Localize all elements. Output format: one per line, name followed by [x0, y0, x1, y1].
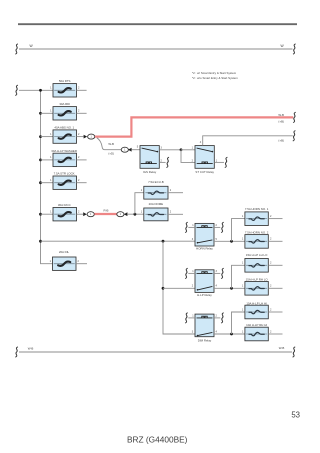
svg-text:2: 2: [270, 262, 272, 265]
fuse F3 40A ABS NO.1: [41, 126, 84, 144]
node feeder split: [162, 240, 165, 243]
fuse 7.5A ECU-B: [141, 180, 183, 199]
svg-text:10A H-LP RH HI: 10A H-LP RH HI: [246, 323, 267, 327]
svg-text:2: 2: [78, 87, 80, 90]
svg-text:1: 1: [50, 156, 52, 159]
wire dim out to fuses: [214, 333, 245, 335]
svg-text:2: 2: [78, 179, 80, 182]
fuse 7.5A HORN NO.2: [242, 230, 283, 248]
relay U4 H-LP Relay: [192, 270, 218, 297]
wire node to ST CUT pin1: [181, 149, 195, 151]
relay U1 IGS Relay: [137, 146, 163, 174]
wire hlp coil left: [188, 272, 195, 274]
svg-text:2: 2: [216, 224, 218, 227]
fuse F7 20A DIL: [50, 250, 87, 271]
svg-text:W-B: W-B: [278, 113, 284, 117]
wire hlp out to fuses: [214, 287, 245, 289]
svg-text:4: 4: [200, 141, 202, 144]
svg-text:1: 1: [50, 179, 52, 182]
svg-text:ST CUT Relay: ST CUT Relay: [195, 170, 214, 174]
connector oval DOME feed: [117, 212, 124, 217]
svg-text:(+B): (+B): [278, 120, 284, 124]
wire up to ECU-B fuse: [135, 193, 144, 215]
wire battery red highlight top: [95, 117, 293, 136]
wire from left cut to bus: [15, 85, 18, 95]
fuse F4 30A H-LP WASHER: [41, 149, 87, 167]
svg-text:30A H-LP WASHER: 30A H-LP WASHER: [51, 149, 77, 153]
svg-text:15A H-LP RH LO: 15A H-LP RH LO: [246, 278, 269, 282]
svg-text:7.5A ECU-B: 7.5A ECU-B: [148, 180, 164, 184]
svg-text:W: W: [281, 44, 285, 48]
connector oval IGS feed: [121, 147, 128, 152]
fuse 10A H-LP RH HI: [242, 323, 283, 341]
wire feeder to HORN relay: [41, 240, 196, 242]
svg-text:20A DIL: 20A DIL: [59, 250, 70, 254]
svg-text:1: 1: [50, 110, 52, 113]
svg-text:1: 1: [192, 315, 194, 318]
wire horn out to fuses: [214, 240, 245, 242]
svg-text:3: 3: [192, 330, 194, 333]
svg-text:2: 2: [78, 156, 80, 159]
fuse 20A DOME: [141, 202, 183, 221]
connector oval F3: [88, 134, 95, 139]
svg-text:4: 4: [216, 330, 218, 333]
svg-text:2: 2: [78, 260, 80, 263]
wire ST CUT pin4 to cut: [203, 136, 293, 146]
svg-text:HORN Relay: HORN Relay: [196, 247, 213, 251]
svg-text:2: 2: [270, 215, 272, 218]
wire W-B ground bottom: [19, 351, 292, 353]
connector squiggle red end: [293, 112, 296, 122]
svg-text:2: 2: [216, 315, 218, 318]
wire node down to ST CUT pin2: [181, 150, 195, 163]
svg-text:1: 1: [242, 330, 244, 333]
svg-text:2: 2: [78, 133, 80, 136]
svg-text:2: 2: [270, 285, 272, 288]
relay U2 ST CUT Relay: [192, 141, 218, 174]
svg-text:(+B): (+B): [278, 138, 284, 142]
svg-text:W-B: W-B: [28, 346, 34, 350]
wire R-B red highlight: [94, 213, 117, 215]
fuse 10A H-LP LH HI: [242, 302, 283, 319]
svg-text:R-B: R-B: [104, 208, 109, 212]
connector squiggle top-left: [15, 44, 18, 54]
svg-text:7.5A HORN NO. 1: 7.5A HORN NO. 1: [245, 207, 269, 211]
svg-text:30A D/CC: 30A D/CC: [58, 203, 71, 207]
wire to H-LP relay: [163, 287, 195, 289]
svg-text:1: 1: [50, 87, 52, 90]
svg-text:1: 1: [242, 262, 244, 265]
svg-text:2: 2: [270, 308, 272, 311]
svg-text:2: 2: [270, 330, 272, 333]
svg-text:BRZ (G4400BE): BRZ (G4400BE): [127, 434, 188, 444]
wire sub bus down: [163, 241, 195, 334]
svg-text:1: 1: [192, 147, 194, 150]
svg-text:1: 1: [242, 215, 244, 218]
top frame bar: [18, 23, 297, 25]
svg-text:1: 1: [141, 189, 143, 192]
fuse F2 30A RDI: [41, 102, 87, 120]
svg-text:1: 1: [50, 260, 52, 263]
svg-text:50A DTS: 50A DTS: [59, 79, 71, 83]
svg-text:4: 4: [216, 285, 218, 288]
svg-text:2: 2: [192, 285, 194, 288]
svg-text:1: 1: [242, 238, 244, 241]
svg-text:20A DOME: 20A DOME: [149, 202, 164, 206]
svg-text:15A H-LP LH LO: 15A H-LP LH LO: [246, 253, 268, 257]
wire to dome junction: [127, 213, 143, 215]
svg-text:7.5A HORN NO. 2: 7.5A HORN NO. 2: [245, 230, 269, 234]
svg-text:1: 1: [50, 133, 52, 136]
wire ST CUT out pin1: [214, 161, 224, 163]
svg-text:DIM Relay: DIM Relay: [198, 338, 212, 342]
svg-text:*2 : w/ Smart Entry & Start Sy: *2 : w/ Smart Entry & Start System: [192, 71, 237, 75]
svg-text:3: 3: [192, 238, 194, 241]
svg-text:1: 1: [192, 270, 194, 273]
connector oval F6: [87, 212, 94, 217]
connector arrow F3: [84, 135, 88, 139]
svg-text:1: 1: [242, 308, 244, 311]
svg-text:2: 2: [78, 110, 80, 113]
node junction dots on bus: [39, 89, 42, 243]
node ECU-B/DOME junction: [134, 213, 137, 216]
svg-text:3: 3: [216, 270, 218, 273]
relay U3 HORN Relay: [192, 223, 218, 250]
svg-text:7.5A STR LOCK: 7.5A STR LOCK: [54, 172, 75, 176]
svg-text:30A RDI: 30A RDI: [59, 102, 70, 106]
wire dim coil left: [188, 317, 195, 319]
svg-text:5: 5: [137, 146, 139, 149]
svg-text:1: 1: [192, 224, 194, 227]
connector arrow IGS feed: [128, 148, 132, 152]
node IGS/STCUT: [180, 148, 183, 151]
wire IGS pin3 to node: [159, 149, 181, 151]
svg-text:2: 2: [170, 211, 172, 214]
fuse F5 7.5A STR LOCK: [41, 172, 87, 190]
wire IGS pin2 out: [159, 161, 165, 163]
wire dim coil right: [214, 317, 220, 319]
wire horn coil left: [188, 226, 195, 228]
connector arrow F6: [83, 212, 87, 216]
svg-text:1: 1: [50, 211, 52, 214]
wire main bus: [41, 90, 54, 263]
svg-text:5: 5: [216, 238, 218, 241]
fuse 7.5A HORN NO.1: [242, 207, 283, 225]
svg-text:2: 2: [78, 211, 80, 214]
svg-text:2: 2: [270, 238, 272, 241]
connector squiggle top-right: [293, 44, 296, 54]
svg-text:*2 : w/o Smart Entry & Start S: *2 : w/o Smart Entry & Start System: [192, 76, 238, 80]
svg-text:40A ABS NO. 1: 40A ABS NO. 1: [54, 126, 74, 130]
svg-text:W-B: W-B: [108, 142, 114, 146]
wire W-B to IGS relay: [97, 138, 121, 150]
node H-LP feed: [162, 287, 165, 290]
fuse F6 30A D/CC: [41, 203, 84, 221]
relay U5 DIM Relay: [192, 314, 218, 342]
wire hlp coil right: [214, 272, 220, 274]
wire W top: [19, 48, 293, 50]
svg-text:2: 2: [170, 189, 172, 192]
wire horn coil right: [214, 226, 220, 228]
svg-text:1: 1: [242, 285, 244, 288]
svg-text:(+D): (+D): [108, 151, 114, 155]
svg-text:W-B: W-B: [279, 346, 285, 350]
svg-text:W: W: [30, 44, 34, 48]
svg-text:1: 1: [141, 211, 143, 214]
connector arrow DOME feed: [124, 212, 128, 216]
fuse 15A H-LP LH LO: [242, 253, 283, 272]
fuse 15A H-LP RH LO: [242, 278, 283, 296]
svg-text:53: 53: [291, 411, 300, 420]
svg-text:IGS Relay: IGS Relay: [143, 170, 157, 174]
svg-text:H-LP Relay: H-LP Relay: [197, 293, 212, 297]
svg-text:3: 3: [161, 147, 163, 150]
fuse F1 50A DTS: [50, 79, 86, 97]
